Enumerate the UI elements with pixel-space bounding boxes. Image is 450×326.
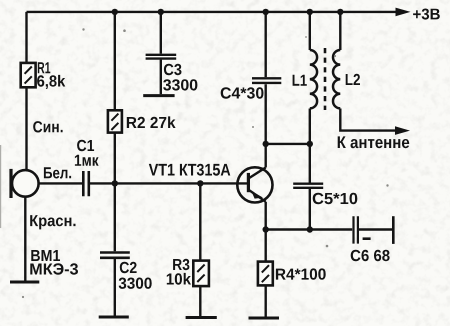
transistor VT1 xyxy=(237,167,272,202)
node emitter/R4 junction xyxy=(263,226,269,232)
label C6 68 xyxy=(351,250,390,261)
node rail/L2 junction xyxy=(337,9,343,15)
label R4*100 xyxy=(276,268,326,279)
label C3 xyxy=(164,64,182,75)
transformer core dashed line xyxy=(324,48,327,110)
node rail/C3 junction xyxy=(158,9,164,15)
wire left branch vertical (rail to R1 to mic) xyxy=(25,12,27,171)
wire tank node to C5 xyxy=(309,144,311,183)
C6 output terminal bar xyxy=(392,216,395,244)
wire L2 to antenna arrow xyxy=(340,109,396,131)
node base/R2/C2 junction xyxy=(112,180,118,186)
resistor R4 xyxy=(258,262,273,286)
wire C4 to collector xyxy=(265,84,267,167)
label R3 xyxy=(173,259,189,270)
capacitor C4 xyxy=(252,78,281,83)
power +3V arrowhead xyxy=(396,8,411,17)
capacitor C1 xyxy=(83,171,89,196)
inductor L1 xyxy=(310,50,317,108)
label wire Бел. xyxy=(44,167,71,178)
wire rail to L2 xyxy=(339,12,341,50)
wire +3V top rail xyxy=(27,11,398,13)
label ВМ1 xyxy=(31,250,60,261)
capacitor C3 xyxy=(146,55,177,59)
label wire Син. xyxy=(33,121,62,132)
wire L1 to link node xyxy=(309,109,311,144)
node base/R3 junction xyxy=(197,180,203,186)
label C1 value 1мк xyxy=(75,155,99,166)
node rail/R2 junction xyxy=(112,9,118,15)
label C1 xyxy=(77,140,94,151)
label R2 27k xyxy=(127,116,176,128)
node rail/L1 junction xyxy=(307,9,313,15)
wire C1 to transistor base xyxy=(90,182,247,184)
wire rail to C3 xyxy=(160,12,162,54)
C6 polarity minus mark xyxy=(363,237,371,240)
label R1 xyxy=(38,62,51,73)
wire R2 to base line xyxy=(114,133,116,184)
label R3 value 10k xyxy=(167,273,191,285)
wire microphone to ground xyxy=(24,197,26,281)
resistor R3 xyxy=(193,261,209,287)
wire C5 to emitter line xyxy=(309,189,311,230)
ground bar below microphone xyxy=(10,281,39,284)
capacitor C5 xyxy=(293,184,323,188)
label C2 xyxy=(120,262,137,273)
node collector/link junction xyxy=(263,141,269,147)
capacitor C2 xyxy=(100,253,130,258)
label C3 value 3300 xyxy=(163,79,197,90)
resistor R2 xyxy=(108,110,122,132)
wire R3 to ground xyxy=(199,286,201,316)
wire rail to L1 xyxy=(309,12,311,50)
capacitor C6 xyxy=(354,216,358,243)
label C2 value 3300 xyxy=(119,278,152,289)
scan edge artifact left xyxy=(0,145,2,228)
ground bar below C3 xyxy=(143,94,174,97)
antenna output arrowhead xyxy=(395,126,410,135)
wire C6 to output terminal xyxy=(359,228,392,230)
label C4*30 xyxy=(221,87,264,98)
wire base line to C2 xyxy=(114,183,116,251)
node rail/C4 junction xyxy=(263,9,269,15)
label К антенне xyxy=(338,136,410,148)
label L1 xyxy=(293,75,307,86)
microphone BM1 xyxy=(11,169,39,198)
wire collector node to tank node xyxy=(266,143,310,145)
label МКЭ-3 xyxy=(30,263,78,274)
label C5*10 xyxy=(313,193,358,204)
wire base line to R3 xyxy=(199,183,201,260)
ground bar below R4 xyxy=(249,317,280,320)
node tank/link junction xyxy=(307,141,313,147)
wire rail to R2 xyxy=(114,12,116,110)
label +3В xyxy=(413,9,440,20)
wire emitter node to C6 xyxy=(266,228,353,230)
wire rail to C4 xyxy=(265,12,267,77)
wire microphone to C1 xyxy=(39,182,82,184)
wire emitter to R4 xyxy=(265,202,267,262)
node emitter line/C5 junction xyxy=(307,226,313,232)
wire R4 to ground xyxy=(265,285,267,316)
label L2 xyxy=(346,74,360,85)
ground bar below R3 xyxy=(186,316,217,319)
label wire Красн. xyxy=(30,215,75,229)
wire C2 to ground xyxy=(114,259,116,316)
ground bar below C2 xyxy=(99,316,129,319)
resistor R1 xyxy=(21,63,36,87)
label R1 value 6,8k xyxy=(37,75,65,89)
label VT1 КТ315А xyxy=(149,164,231,176)
scan speckles xyxy=(22,28,389,298)
wire C3 to ground xyxy=(160,60,162,95)
inductor L2 xyxy=(333,50,340,108)
